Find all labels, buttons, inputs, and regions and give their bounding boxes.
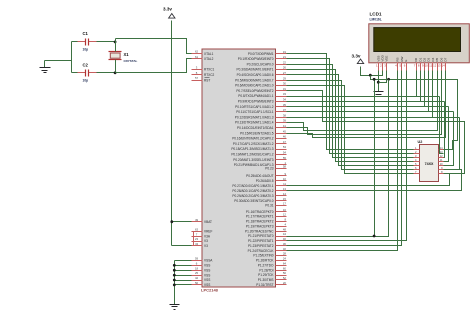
svg-text:P1.22/PIPESTAT1: P1.22/PIPESTAT1 bbox=[248, 239, 274, 243]
svg-text:28: 28 bbox=[283, 252, 287, 256]
wire data D4 bus bbox=[287, 117, 460, 119]
junction bbox=[173, 274, 176, 277]
junction bbox=[173, 279, 176, 282]
svg-text:P1.18/TRACEPKT2: P1.18/TRACEPKT2 bbox=[246, 220, 274, 224]
junction ctrl1b top bbox=[373, 78, 376, 81]
pin P1.21/PIPESTAT0 (44) bbox=[276, 236, 287, 238]
svg-text:17: 17 bbox=[283, 201, 287, 205]
LCD pin VEE bbox=[386, 63, 388, 71]
pin P0.29/AD0.2/CAP0.3/MAT0.3 (14) bbox=[276, 195, 287, 197]
svg-text:P0.9/RXD1/PWM6/EINT3: P0.9/RXD1/PWM6/EINT3 bbox=[238, 99, 274, 103]
wire data D3 bus bbox=[287, 111, 454, 113]
svg-text:P1.28/TDI: P1.28/TDI bbox=[259, 268, 273, 272]
pin P0.25/AD0.4/AOUT (9) bbox=[276, 175, 287, 177]
capacitor C1 bbox=[72, 41, 78, 43]
svg-text:48: 48 bbox=[283, 227, 287, 231]
pin P0.3/SDA0/MAT0.0/EINT1 (26) bbox=[276, 69, 287, 71]
svg-text:52: 52 bbox=[283, 276, 287, 280]
svg-text:16: 16 bbox=[283, 208, 287, 212]
svg-text:E: E bbox=[404, 60, 408, 62]
svg-text:VSS: VSS bbox=[204, 263, 210, 267]
svg-text:12: 12 bbox=[283, 213, 287, 217]
pin P0.10/RTS1/CAP1.0/AD1.2 (35) bbox=[276, 106, 287, 108]
pin P1.24/TRACECLK (32) bbox=[276, 250, 287, 252]
LCD pin D7 bbox=[445, 63, 447, 71]
wire MCU row4 to U2 pin5 bbox=[287, 75, 414, 166]
pin P1.26/RTCK (24) bbox=[276, 260, 287, 262]
svg-text:21: 21 bbox=[283, 55, 287, 59]
buffer U2 74XX bbox=[420, 145, 439, 182]
svg-text:63: 63 bbox=[195, 228, 199, 232]
svg-text:VBAT: VBAT bbox=[204, 220, 212, 224]
wire data D0 bus bbox=[287, 96, 440, 98]
U2 left pin 5 bbox=[414, 165, 420, 167]
pin P0.28/AD0.1/CAP0.2/MAT0.2 (13) bbox=[276, 190, 287, 192]
wire MCU row5 to U2 pin6 bbox=[287, 81, 414, 170]
LCD pin VSS bbox=[378, 63, 380, 71]
ground GND2 (MCU VSS) bbox=[170, 304, 180, 306]
svg-text:64: 64 bbox=[283, 261, 287, 265]
svg-text:P0.25/AD0.4/AOUT: P0.25/AD0.4/AOUT bbox=[246, 174, 273, 178]
wire MCU row13 / LCD D5 bbox=[287, 71, 438, 131]
svg-text:42: 42 bbox=[195, 276, 199, 280]
svg-text:13: 13 bbox=[437, 64, 441, 68]
microcontroller U1 LPC2148 bbox=[202, 49, 276, 287]
wire VSS tap bbox=[175, 284, 192, 286]
node C2/X1/XTAL2 bbox=[114, 71, 117, 74]
U2 left pin 2 bbox=[414, 153, 420, 155]
wire LCD VSS to ground bbox=[378, 71, 380, 92]
pin VSS (25) bbox=[192, 275, 203, 277]
svg-text:VSS: VSS bbox=[204, 278, 210, 282]
junction VSS/VEE bbox=[377, 81, 380, 84]
red chain VREF-V3A-V3-V3 bbox=[193, 232, 195, 246]
wire node to XTAL2 pin bbox=[116, 59, 192, 73]
svg-text:49: 49 bbox=[195, 218, 199, 222]
pin P0.15/RI1/EINT2/AD1.5 (45) bbox=[276, 133, 287, 135]
wire 3.3v rail down to V3 pins bbox=[171, 21, 173, 246]
pin RTXC2 (5) bbox=[192, 74, 203, 76]
svg-text:27: 27 bbox=[283, 71, 287, 75]
svg-text:P1.21/PIPESTAT0: P1.21/PIPESTAT0 bbox=[248, 234, 274, 238]
svg-text:31: 31 bbox=[283, 87, 287, 91]
LCD pin RS bbox=[397, 63, 399, 71]
wire LCD RW to MCU bbox=[287, 71, 402, 246]
svg-text:XTAL2: XTAL2 bbox=[204, 57, 214, 61]
svg-text:P1.30/TMS: P1.30/TMS bbox=[258, 278, 274, 282]
svg-text:P0.31: P0.31 bbox=[265, 203, 273, 207]
LCD pin E bbox=[406, 63, 408, 71]
svg-text:P0.20/MAT1.3/SSEL1/EINT3: P0.20/MAT1.3/SSEL1/EINT3 bbox=[233, 158, 274, 162]
junction VBAT tap bbox=[170, 220, 173, 223]
svg-text:P0.14/DCD1/EINT1/SDA1: P0.14/DCD1/EINT1/SDA1 bbox=[237, 126, 274, 130]
pin P0.4/SCK0/CAP0.1/AD0.6 (27) bbox=[276, 74, 287, 76]
wire 3.3v to U2 pin14 bbox=[371, 76, 458, 150]
svg-text:62: 62 bbox=[195, 50, 199, 54]
svg-text:26: 26 bbox=[283, 66, 287, 70]
svg-text:P0.11/CTS1/CAP1.1/SCL1: P0.11/CTS1/CAP1.1/SCL1 bbox=[236, 110, 274, 114]
wire data D2 bus bbox=[287, 106, 449, 108]
svg-text:P0.28/AD0.1/CAP0.2/MAT0.2: P0.28/AD0.1/CAP0.2/MAT0.2 bbox=[232, 189, 273, 193]
wire VSS tap bbox=[175, 275, 192, 277]
pin P0.27/AD0.0/CAP0.1/MAT0.1 (11) bbox=[276, 185, 287, 187]
capacitor C2 bbox=[72, 72, 78, 74]
pin P1.17/TRACEPKT1 (12) bbox=[276, 216, 287, 218]
wire ctrl1b vertical bbox=[374, 80, 376, 237]
pin P0.31 (17) bbox=[276, 205, 287, 207]
svg-text:RST: RST bbox=[204, 78, 210, 82]
svg-text:V3A: V3A bbox=[204, 234, 211, 238]
wire ctrl1 (3.3v feed) to MCU bbox=[287, 80, 389, 237]
ground GND3 (LCD) bbox=[374, 91, 384, 93]
pin P0.19/MAT1.2/MOSI1/CAP1.2 (54) bbox=[276, 154, 287, 156]
wire VSSA/VSS ground rail bbox=[174, 261, 176, 305]
U2 left pin 6 bbox=[414, 169, 420, 171]
svg-text:VSS: VSS bbox=[204, 283, 210, 287]
pin P0.6/MOSI0/CAP0.2/AD1.0 (30) bbox=[276, 85, 287, 87]
pin VREF (63) bbox=[192, 231, 203, 233]
svg-text:P1.16/TRACEPKT0: P1.16/TRACEPKT0 bbox=[246, 210, 274, 214]
wire data D1 bus bbox=[287, 101, 445, 103]
pin P0.30/AD0.3/EINT3/CAP0.0 (15) bbox=[276, 200, 287, 202]
svg-text:34: 34 bbox=[283, 98, 287, 102]
pin P1.31/TRST (20) bbox=[276, 284, 287, 286]
pin P0.0/TXD0/PWM1 (19) bbox=[276, 53, 287, 55]
svg-text:P0.1/RXD0/PWM3/EINT0: P0.1/RXD0/PWM3/EINT0 bbox=[238, 57, 274, 61]
U2 right pin 12 bbox=[439, 157, 444, 159]
svg-text:46: 46 bbox=[283, 135, 287, 139]
pin V3 (23) bbox=[192, 241, 203, 243]
svg-text:18: 18 bbox=[195, 266, 199, 270]
power +3.3V VDD rail bbox=[169, 14, 175, 19]
pin P0.1/RXD0/PWM3/EINT0 (21) bbox=[276, 58, 287, 60]
svg-text:P0.17/CAP1.2/SCK1/MAT1.2: P0.17/CAP1.2/SCK1/MAT1.2 bbox=[233, 142, 274, 146]
svg-text:57: 57 bbox=[195, 76, 199, 80]
svg-text:P0.8/TXD1/PWM4/AD1.1: P0.8/TXD1/PWM4/AD1.1 bbox=[238, 94, 274, 98]
pin VSS (18) bbox=[192, 270, 203, 272]
junction on 3.3v feed bbox=[387, 78, 390, 81]
junction 3.3v branch bbox=[369, 74, 372, 77]
svg-text:VSS: VSS bbox=[204, 273, 210, 277]
wire MCU P0.28 to U2 pin9 (wrap below) bbox=[287, 170, 462, 191]
pin P0.11/CTS1/CAP1.1/SCL1 (37) bbox=[276, 111, 287, 113]
LCD screen bbox=[374, 28, 461, 52]
pin P0.2/SCL0/CAP0.0 (22) bbox=[276, 64, 287, 66]
LCD pin D3 bbox=[428, 63, 430, 71]
svg-text:29: 29 bbox=[283, 76, 287, 80]
U2 left pin 4 bbox=[414, 161, 420, 163]
pin P0.26/AD0.5 (10) bbox=[276, 180, 287, 182]
U2 right pin 8 bbox=[439, 173, 444, 175]
pin P1.27/TDO (64) bbox=[276, 265, 287, 267]
pin P0.13/DTR1/MAT1.1/AD1.4 (39) bbox=[276, 122, 287, 124]
svg-text:37: 37 bbox=[283, 108, 287, 112]
wire LCD VEE to ground node bbox=[379, 71, 387, 83]
pin P1.18/TRACEPKT2 (8) bbox=[276, 221, 287, 223]
pin XTAL2 (61) bbox=[192, 58, 203, 60]
svg-text:14: 14 bbox=[441, 64, 445, 68]
svg-text:P0.15/RI1/EINT2/AD1.5: P0.15/RI1/EINT2/AD1.5 bbox=[240, 131, 274, 135]
svg-text:P0.3/SDA0/MAT0.0/EINT1: P0.3/SDA0/MAT0.0/EINT1 bbox=[237, 68, 274, 72]
wire MCU row7 to nest / U2 pin8 bbox=[287, 91, 465, 174]
wire LCD RS to MCU bbox=[287, 71, 398, 251]
U2 left pin 3 bbox=[414, 157, 420, 159]
svg-text:3.3v: 3.3v bbox=[163, 7, 172, 12]
pin P1.19/TRACEPKT3 (4) bbox=[276, 226, 287, 228]
svg-text:CRYSTAL: CRYSTAL bbox=[124, 59, 138, 63]
svg-text:P1.24/TRACECLK: P1.24/TRACECLK bbox=[248, 249, 275, 253]
U2 left pin 7 bbox=[414, 173, 420, 175]
wire X1 bottom to C2 node bbox=[115, 60, 117, 73]
node C1/X1/XTAL1 bbox=[114, 41, 117, 44]
wire MCU row3 to U2 pin4 bbox=[287, 70, 414, 162]
junction ctrl1b bottom bbox=[373, 235, 376, 238]
svg-text:20: 20 bbox=[283, 281, 287, 285]
svg-text:30: 30 bbox=[283, 82, 287, 86]
svg-text:P1.26/RTCK: P1.26/RTCK bbox=[256, 259, 274, 263]
svg-text:VSS: VSS bbox=[204, 268, 210, 272]
pin V3A (7) bbox=[192, 236, 203, 238]
wire X1 top to C1 node bbox=[115, 39, 117, 52]
svg-text:15: 15 bbox=[283, 197, 287, 201]
pin P1.30/TMS (52) bbox=[276, 279, 287, 281]
svg-text:33: 33 bbox=[283, 92, 287, 96]
pin P1.16/TRACEPKT0 (16) bbox=[276, 211, 287, 213]
pin P1.23/PIPESTAT2 (36) bbox=[276, 245, 287, 247]
svg-text:10: 10 bbox=[283, 177, 287, 181]
svg-text:25: 25 bbox=[195, 271, 199, 275]
svg-text:VREF: VREF bbox=[204, 230, 212, 234]
wire MCU row14 / LCD D6 bbox=[287, 71, 442, 135]
svg-text:74XX: 74XX bbox=[425, 162, 434, 166]
wire MCU row6 to U2 pin7 bbox=[287, 86, 414, 174]
svg-text:P0.23: P0.23 bbox=[265, 166, 273, 170]
svg-text:C2: C2 bbox=[83, 62, 89, 67]
wire MCU row0 to U2 pin1 bbox=[287, 54, 414, 150]
svg-text:U2: U2 bbox=[418, 140, 423, 144]
crystal X1 bbox=[109, 51, 122, 53]
svg-text:P0.19/MAT1.2/MOSI1/CAP1.2: P0.19/MAT1.2/MOSI1/CAP1.2 bbox=[231, 152, 273, 156]
wire rail tap VBAT bbox=[172, 221, 192, 223]
svg-text:VEE: VEE bbox=[385, 56, 389, 62]
U2 right pin 10 bbox=[439, 165, 444, 167]
svg-text:P1.27/TDO: P1.27/TDO bbox=[258, 263, 274, 267]
pin P0.7/SSEL0/PWM2/EINT2 (31) bbox=[276, 90, 287, 92]
svg-text:59: 59 bbox=[195, 257, 199, 261]
pin P1.22/PIPESTAT1 (40) bbox=[276, 240, 287, 242]
svg-text:11: 11 bbox=[429, 64, 432, 68]
pin P0.8/TXD1/PWM4/AD1.1 (33) bbox=[276, 96, 287, 98]
svg-text:13: 13 bbox=[283, 187, 287, 191]
wire MCU row1 to U2 pin2 bbox=[287, 59, 414, 154]
wire node to XTAL1 pin bbox=[116, 39, 192, 54]
wire VSS tap bbox=[175, 265, 192, 267]
LCD pin D6 bbox=[441, 63, 443, 71]
svg-text:39: 39 bbox=[283, 119, 287, 123]
LCD pin D0 bbox=[416, 63, 418, 71]
svg-text:36: 36 bbox=[283, 242, 287, 246]
svg-text:VSSA: VSSA bbox=[204, 259, 213, 263]
pin P0.17/CAP1.2/SCK1/MAT1.2 (47) bbox=[276, 143, 287, 145]
svg-text:40: 40 bbox=[283, 237, 287, 241]
svg-text:32: 32 bbox=[283, 247, 287, 251]
wire VSS tap bbox=[175, 270, 192, 272]
wire MCU row2 to U2 pin3 bbox=[287, 65, 414, 158]
pin P0.21/PWM5/AD1.6/CAP1.3 (1) bbox=[276, 164, 287, 166]
wire C1 right lead bbox=[97, 41, 116, 43]
U2 right pin 11 bbox=[439, 161, 444, 163]
svg-text:14: 14 bbox=[283, 192, 287, 196]
svg-text:P0.5/MISO0/MAT0.1/AD0.7: P0.5/MISO0/MAT0.1/AD0.7 bbox=[235, 78, 274, 82]
svg-text:P0.4/SCK0/CAP0.1/AD0.6: P0.4/SCK0/CAP0.1/AD0.6 bbox=[237, 73, 274, 77]
svg-text:P0.30/AD0.3/EINT3/CAP0.0: P0.30/AD0.3/EINT3/CAP0.0 bbox=[234, 199, 274, 203]
svg-text:V3: V3 bbox=[204, 239, 208, 243]
svg-text:D3: D3 bbox=[427, 57, 431, 61]
svg-text:LPC2148: LPC2148 bbox=[201, 288, 219, 293]
junction bbox=[173, 269, 176, 272]
power +3.3V LCD VDD bbox=[357, 59, 363, 64]
pin P1.25/EXTIN0 (28) bbox=[276, 255, 287, 257]
svg-text:P0.16/EINT0/MAT0.2/CAP0.2: P0.16/EINT0/MAT0.2/CAP0.2 bbox=[232, 137, 274, 141]
junction bbox=[173, 284, 176, 287]
pin VBAT (49) bbox=[192, 221, 203, 223]
pin P0.9/RXD1/PWM6/EINT3 (34) bbox=[276, 101, 287, 103]
svg-text:41: 41 bbox=[283, 124, 287, 128]
svg-text:60: 60 bbox=[283, 266, 287, 270]
svg-text:P0.12/DSR1/MAT1.0/AD1.3: P0.12/DSR1/MAT1.0/AD1.3 bbox=[235, 115, 274, 119]
wire MCU P0.27 to U2 pin8 (wrap below) bbox=[287, 174, 450, 186]
pin V3 (43) bbox=[192, 245, 203, 247]
svg-text:P0.10/RTS1/CAP1.0/AD1.2: P0.10/RTS1/CAP1.0/AD1.2 bbox=[235, 105, 274, 109]
svg-text:V3: V3 bbox=[204, 244, 208, 248]
pin P0.23 (58) bbox=[276, 168, 287, 170]
wire 3.3v to LCD VDD bbox=[361, 67, 383, 76]
svg-text:P1.23/PIPESTAT2: P1.23/PIPESTAT2 bbox=[248, 244, 274, 248]
wire ground to cap node bbox=[45, 60, 72, 62]
LCD pin RW bbox=[401, 63, 403, 71]
LCD pin D5 bbox=[437, 63, 439, 71]
pin P1.28/TDI (60) bbox=[276, 270, 287, 272]
U2 right pin 9 bbox=[439, 169, 444, 171]
pin P0.14/DCD1/EINT1/SDA1 (41) bbox=[276, 127, 287, 129]
U2 right pin 14 bbox=[439, 149, 444, 151]
svg-text:P0.0/TXD0/PWM1: P0.0/TXD0/PWM1 bbox=[248, 52, 274, 56]
svg-text:P0.6/MOSI0/CAP0.2/AD1.0: P0.6/MOSI0/CAP0.2/AD1.0 bbox=[235, 84, 274, 88]
svg-text:58: 58 bbox=[283, 164, 287, 168]
svg-text:53: 53 bbox=[283, 145, 287, 149]
LCD pin VDD bbox=[382, 63, 384, 71]
svg-text:P0.18/CAP1.3/MISO1/MAT1.3: P0.18/CAP1.3/MISO1/MAT1.3 bbox=[231, 147, 273, 151]
pin RTXC1 (3) bbox=[192, 69, 203, 71]
pin VSS (50) bbox=[192, 284, 203, 286]
pin P0.20/MAT1.3/SSEL1/EINT3 (55) bbox=[276, 159, 287, 161]
junction bbox=[173, 264, 176, 267]
svg-text:55: 55 bbox=[283, 156, 287, 160]
svg-text:10p: 10p bbox=[83, 79, 89, 83]
pin VSS (42) bbox=[192, 280, 203, 282]
svg-text:P0.13/DTR1/MAT1.1/AD1.4: P0.13/DTR1/MAT1.1/AD1.4 bbox=[235, 121, 274, 125]
wire C1-C2 common node vertical bbox=[71, 42, 73, 73]
svg-text:RTXC1: RTXC1 bbox=[204, 68, 214, 72]
LCD pin D2 bbox=[424, 63, 426, 71]
svg-text:X1: X1 bbox=[124, 52, 130, 57]
pin RST (57) bbox=[192, 80, 203, 82]
svg-text:61: 61 bbox=[195, 55, 199, 59]
svg-text:P0.29/AD0.2/CAP0.3/MAT0.3: P0.29/AD0.2/CAP0.3/MAT0.3 bbox=[232, 194, 273, 198]
svg-text:43: 43 bbox=[195, 242, 199, 246]
svg-text:22: 22 bbox=[283, 60, 287, 64]
LCD pin D1 bbox=[420, 63, 422, 71]
pin P0.12/DSR1/MAT1.0/AD1.3 (38) bbox=[276, 117, 287, 119]
svg-text:P0.26/AD0.5: P0.26/AD0.5 bbox=[256, 179, 274, 183]
svg-text:P1.17/TRACEPKT1: P1.17/TRACEPKT1 bbox=[246, 215, 274, 219]
svg-text:P0.27/AD0.0/CAP0.1/MAT0.1: P0.27/AD0.0/CAP0.1/MAT0.1 bbox=[232, 184, 273, 188]
pin P1.29/TCK (56) bbox=[276, 275, 287, 277]
pin P1.20/TRACESYNC (48) bbox=[276, 231, 287, 233]
pin XTAL1 (62) bbox=[192, 53, 203, 55]
svg-text:P0.2/SCL0/CAP0.0: P0.2/SCL0/CAP0.0 bbox=[247, 62, 274, 66]
svg-text:44: 44 bbox=[283, 232, 287, 236]
wire C2 right lead to X1 bottom bbox=[97, 72, 116, 74]
svg-text:LM016L: LM016L bbox=[370, 17, 382, 21]
svg-text:12: 12 bbox=[433, 64, 437, 68]
svg-text:P1.25/EXTIN0: P1.25/EXTIN0 bbox=[253, 254, 273, 258]
svg-text:24: 24 bbox=[283, 257, 287, 261]
svg-text:56: 56 bbox=[283, 271, 287, 275]
pin P0.16/EINT0/MAT0.2/CAP0.2 (46) bbox=[276, 138, 287, 140]
svg-text:P0.7/SSEL0/PWM2/EINT2: P0.7/SSEL0/PWM2/EINT2 bbox=[236, 89, 273, 93]
LCD pin D4 bbox=[432, 63, 434, 71]
svg-text:D7: D7 bbox=[444, 57, 448, 61]
svg-text:P1.19/TRACEPKT3: P1.19/TRACEPKT3 bbox=[246, 224, 274, 228]
svg-text:P1.20/TRACESYNC: P1.20/TRACESYNC bbox=[245, 229, 274, 233]
svg-text:23: 23 bbox=[195, 237, 199, 241]
wire VSS tap bbox=[175, 280, 192, 282]
svg-text:RTXC2: RTXC2 bbox=[204, 73, 214, 77]
pin VSS (6) bbox=[192, 265, 203, 267]
svg-text:19: 19 bbox=[283, 50, 287, 54]
U2 left pin 1 bbox=[414, 149, 420, 151]
svg-text:45: 45 bbox=[283, 129, 287, 133]
svg-text:XTAL1: XTAL1 bbox=[204, 52, 214, 56]
svg-text:11: 11 bbox=[283, 182, 286, 186]
svg-text:10: 10 bbox=[425, 64, 429, 68]
svg-text:3.3v: 3.3v bbox=[352, 54, 361, 59]
U2 right pin 13 bbox=[439, 153, 444, 155]
svg-text:LCD1: LCD1 bbox=[370, 12, 382, 17]
wire MCU row15 / LCD D7 bbox=[287, 71, 446, 138]
svg-text:35: 35 bbox=[283, 103, 287, 107]
pin P0.5/MISO0/MAT0.1/AD0.7 (29) bbox=[276, 80, 287, 82]
svg-text:P1.31/TRST: P1.31/TRST bbox=[256, 283, 273, 287]
pin VSSA (59) bbox=[192, 260, 203, 262]
svg-text:47: 47 bbox=[283, 140, 287, 144]
svg-text:10p: 10p bbox=[83, 48, 89, 52]
wire LCD E to MCU bbox=[287, 71, 407, 241]
svg-text:50: 50 bbox=[195, 281, 199, 285]
svg-text:P1.29/TCK: P1.29/TCK bbox=[258, 273, 274, 277]
pin P0.18/CAP1.3/MISO1/MAT1.3 (53) bbox=[276, 149, 287, 151]
svg-text:C1: C1 bbox=[83, 31, 89, 36]
svg-text:38: 38 bbox=[283, 113, 287, 117]
svg-text:54: 54 bbox=[283, 151, 287, 155]
ground GND1 (crystal) bbox=[44, 61, 46, 68]
